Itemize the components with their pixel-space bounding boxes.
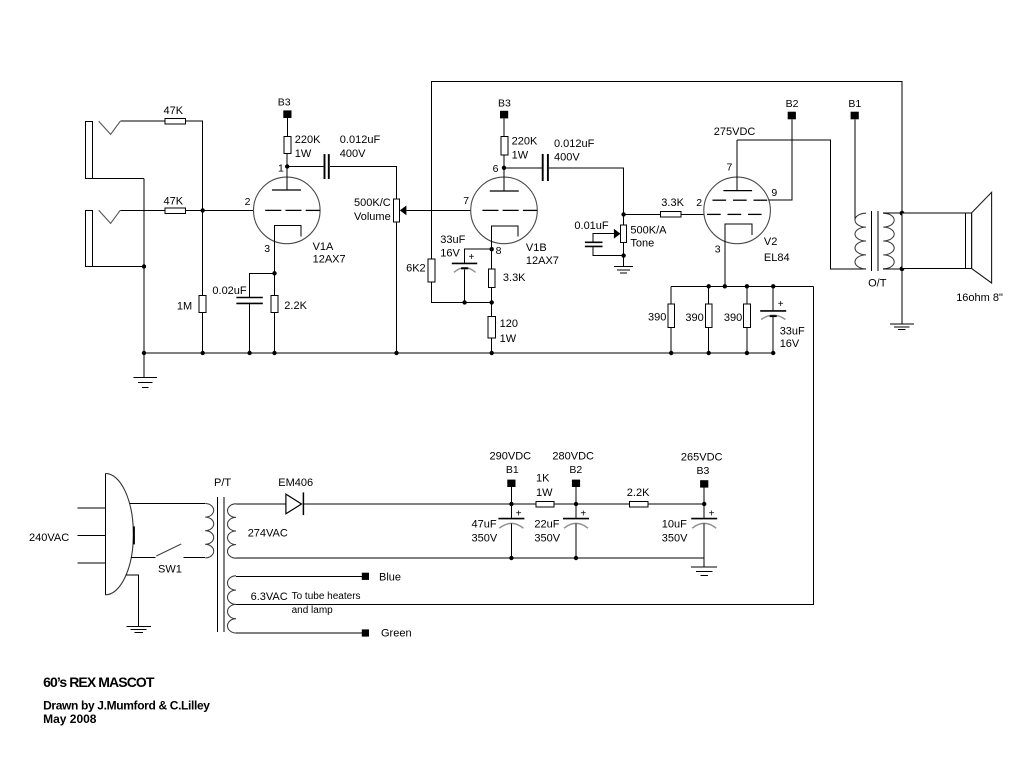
ground (PSU) xyxy=(691,567,717,575)
wire coupling cap to volume pot xyxy=(330,167,397,200)
V2 cathode xyxy=(725,224,752,235)
tube label V1B 12AX7 xyxy=(526,242,559,267)
junction 390-1 bus xyxy=(669,351,673,355)
svg-text:7: 7 xyxy=(727,162,733,174)
resistor 2.2K (dropper) xyxy=(627,487,650,507)
wire 0V return rail xyxy=(236,557,704,559)
junction volume-bus xyxy=(394,351,398,355)
V1A cathode xyxy=(275,226,302,237)
wire B3 to 220K xyxy=(503,118,505,136)
svg-text:Blue: Blue xyxy=(379,571,401,583)
mains plug body xyxy=(105,473,133,594)
wire B1 to OT primary top xyxy=(854,119,856,220)
node B3 (V1A supply) xyxy=(278,97,292,118)
svg-text:B3: B3 xyxy=(278,97,291,109)
svg-text:390: 390 xyxy=(648,311,666,323)
svg-text:240VAC: 240VAC xyxy=(29,532,69,544)
svg-text:3.3K: 3.3K xyxy=(503,272,526,284)
svg-text:EL84: EL84 xyxy=(764,252,790,264)
svg-text:2.2K: 2.2K xyxy=(284,300,307,312)
node B1 (290VDC) xyxy=(490,451,532,504)
resistor 1M xyxy=(177,296,206,313)
transformer O/T primary winding xyxy=(855,213,866,269)
node B3 (V1B supply) xyxy=(498,97,511,118)
capacitor 0.012uF 400V (V1A coupling) xyxy=(325,134,381,179)
wire B3 to 220K xyxy=(286,118,288,137)
svg-text:60’s REX MASCOT: 60’s REX MASCOT xyxy=(43,674,155,690)
junction 390-2 bus xyxy=(707,351,711,355)
junction B1 rail xyxy=(509,502,513,506)
svg-text:O/T: O/T xyxy=(868,278,887,290)
junction 22uF 0V rail xyxy=(574,556,578,560)
svg-text:1: 1 xyxy=(278,162,284,174)
wire bracket to 0.02uF xyxy=(250,273,275,297)
junction 3.3K row xyxy=(490,300,494,304)
svg-text:6: 6 xyxy=(493,163,499,175)
resistor 3.3K (V1B cathode) xyxy=(488,249,526,288)
capacitor 0.012uF 400V (V1B coupling) xyxy=(543,138,595,181)
resistor 390 (third) xyxy=(724,286,750,353)
wire B+ rail 2.2K to B3 xyxy=(648,503,704,505)
wire 0.02uF to bus xyxy=(249,303,251,353)
svg-text:16V: 16V xyxy=(780,338,800,350)
svg-text:1W: 1W xyxy=(512,149,529,161)
resistor 120 1W xyxy=(488,302,518,353)
transformer O/T core xyxy=(872,211,878,271)
svg-text:B2: B2 xyxy=(569,464,582,476)
wire NFB top run xyxy=(432,82,903,260)
V1A plate xyxy=(272,167,301,191)
svg-text:265VDC: 265VDC xyxy=(681,451,723,463)
resistor 390 (first) xyxy=(648,286,675,353)
resistor 3.3K (V2 grid) xyxy=(661,197,685,217)
wire plug to switch xyxy=(131,557,155,559)
svg-text:+: + xyxy=(709,508,715,519)
resistor 1K 1W xyxy=(536,472,554,506)
wire 3.3K to V2 grid pin 2 xyxy=(681,213,704,215)
svg-text:500K/A: 500K/A xyxy=(630,225,667,237)
switch SW1 xyxy=(156,544,182,575)
svg-text:120: 120 xyxy=(500,318,518,330)
wire heater bottom to Green lead xyxy=(236,632,362,634)
junction cathode node xyxy=(272,271,276,275)
V2 screen grid (dashed) xyxy=(713,199,768,201)
junction grid node xyxy=(201,208,205,212)
resistor 220K 1W (V1A plate load) xyxy=(284,134,321,160)
svg-text:275VDC: 275VDC xyxy=(714,126,756,138)
wire volume bottom to bus xyxy=(396,222,398,353)
capacitor 47uF 350V xyxy=(472,504,525,558)
potentiometer 500K/C Volume xyxy=(354,197,406,223)
svg-text:47K: 47K xyxy=(164,195,184,207)
capacitor 0.01uF (tone) xyxy=(574,220,623,256)
svg-text:2.2K: 2.2K xyxy=(627,487,650,499)
wire V1A cathode to junction xyxy=(274,236,276,273)
resistor 6K2 (NFB) xyxy=(406,259,435,282)
node Green lead xyxy=(362,627,412,639)
junction B3 rail xyxy=(702,502,706,506)
svg-text:22uF: 22uF xyxy=(534,518,559,530)
wire 47K to grid bus corner xyxy=(186,121,203,210)
svg-text:B3: B3 xyxy=(697,465,710,477)
svg-text:10uF: 10uF xyxy=(662,518,687,530)
wire ground riser from jacks xyxy=(143,178,145,353)
svg-text:47uF: 47uF xyxy=(472,518,497,530)
svg-text:+: + xyxy=(516,508,522,519)
junction B2 rail xyxy=(574,502,578,506)
svg-text:12AX7: 12AX7 xyxy=(526,255,559,267)
capacitor 33uF 16V (V2 cathode bypass) xyxy=(760,286,805,353)
svg-text:12AX7: 12AX7 xyxy=(313,254,346,266)
potentiometer 500K/A Tone xyxy=(614,214,667,249)
svg-text:Volume: Volume xyxy=(354,211,391,223)
svg-text:V1B: V1B xyxy=(526,242,547,254)
wire grid node to 1M to bus xyxy=(202,210,204,353)
node Blue lead xyxy=(362,571,401,583)
svg-text:Tone: Tone xyxy=(630,238,654,250)
wire 220K to node 6 xyxy=(503,155,505,168)
wire tone junction to 3.3K grid stopper xyxy=(624,213,661,215)
node B2 (280VDC) xyxy=(552,451,594,504)
wire J2 tip to 47K xyxy=(120,209,165,211)
svg-text:33uF: 33uF xyxy=(440,234,465,246)
svg-text:3: 3 xyxy=(264,243,270,255)
svg-text:220K: 220K xyxy=(295,134,321,146)
wire J1 tip to 47K xyxy=(120,120,165,122)
junction 47uF 0V rail xyxy=(509,556,513,560)
junction tone ground node xyxy=(621,253,625,257)
V2 plate xyxy=(723,140,752,191)
wire switch to P/T primary xyxy=(184,557,206,559)
wire J1 sleeve to ground riser xyxy=(92,177,144,179)
mains input lines 240VAC xyxy=(29,508,105,563)
V2 control grid (dashed) xyxy=(707,213,762,215)
svg-text:7: 7 xyxy=(463,195,469,207)
svg-text:+: + xyxy=(778,299,784,310)
V1B cathode xyxy=(492,226,519,237)
svg-text:0.012uF: 0.012uF xyxy=(340,134,381,146)
svg-text:33uF: 33uF xyxy=(780,325,805,337)
capacitor 0.02uF (cathode bypass) xyxy=(212,285,262,303)
wire V2 plate to OT primary bottom xyxy=(737,140,866,269)
input jack J1 body xyxy=(86,121,121,178)
wire pin8 to 33uF xyxy=(465,249,492,263)
speaker 16ohm 8" xyxy=(902,192,1003,304)
svg-text:9: 9 xyxy=(771,187,777,199)
resistor 47K (input 1) xyxy=(164,105,186,124)
junction 33uF row xyxy=(462,300,466,304)
V1B plate xyxy=(490,168,519,191)
transformer P/T core xyxy=(218,497,225,632)
wire main ground bus xyxy=(144,352,773,354)
svg-text:0.01uF: 0.01uF xyxy=(574,220,609,232)
svg-text:SW1: SW1 xyxy=(158,563,182,575)
svg-text:8: 8 xyxy=(496,245,502,257)
svg-text:Green: Green xyxy=(381,627,412,639)
title block xyxy=(43,674,210,726)
junction sleeve node xyxy=(142,264,146,268)
svg-text:280VDC: 280VDC xyxy=(552,451,594,463)
wire HT winding to diode xyxy=(236,503,286,505)
svg-text:P/T: P/T xyxy=(214,477,231,489)
svg-text:V1A: V1A xyxy=(313,241,334,253)
wire plug live to P/T primary xyxy=(130,503,206,505)
V1A grid (dashed) xyxy=(265,209,320,211)
wire 6K2 to junction row xyxy=(432,282,492,303)
wire heater top to Blue lead xyxy=(236,575,362,577)
ground (tone) xyxy=(614,267,633,274)
svg-text:To tube heaters: To tube heaters xyxy=(292,591,361,602)
triode V1B envelope xyxy=(471,177,538,244)
svg-text:1M: 1M xyxy=(177,301,192,313)
svg-text:EM406: EM406 xyxy=(278,477,313,489)
svg-text:350V: 350V xyxy=(534,533,560,545)
wire tone pot bottom to ground xyxy=(623,243,625,267)
svg-text:220K: 220K xyxy=(512,136,538,148)
svg-text:B1: B1 xyxy=(848,98,861,110)
node B3 (265VDC) xyxy=(681,451,723,504)
transformer P/T heater winding 6.3VAC xyxy=(227,576,236,633)
junction tone node xyxy=(621,212,625,216)
ground (mains earth) xyxy=(127,626,151,632)
svg-text:47K: 47K xyxy=(164,105,184,117)
triode V1A envelope xyxy=(253,177,320,244)
wire volume wiper to V1B grid pin 7 xyxy=(406,209,470,211)
label 6.3VAC heaters xyxy=(251,591,361,616)
svg-text:274VAC: 274VAC xyxy=(248,528,288,540)
svg-text:Drawn by J.Mumford & C.Lilley: Drawn by J.Mumford & C.Lilley xyxy=(43,698,210,712)
transformer O/T secondary winding xyxy=(883,213,894,269)
pentode V2 envelope xyxy=(704,177,771,244)
junction node 1 xyxy=(285,164,289,168)
svg-text:and lamp: and lamp xyxy=(292,605,334,616)
svg-text:350V: 350V xyxy=(472,533,498,545)
svg-text:V2: V2 xyxy=(764,236,777,248)
wire node1 to coupling cap xyxy=(287,166,323,168)
wire speaker to ground xyxy=(901,269,903,324)
svg-text:6K2: 6K2 xyxy=(406,263,426,275)
svg-text:B1: B1 xyxy=(506,464,519,476)
svg-text:1K: 1K xyxy=(536,472,550,484)
capacitor 22uF 350V xyxy=(534,504,589,558)
junction pin 8 xyxy=(490,247,494,251)
svg-text:3.3K: 3.3K xyxy=(661,197,684,209)
svg-text:0.012uF: 0.012uF xyxy=(554,138,595,150)
diode EM406 xyxy=(278,477,313,515)
svg-text:500K/C: 500K/C xyxy=(354,197,391,209)
svg-text:390: 390 xyxy=(685,312,703,324)
svg-text:+: + xyxy=(469,252,475,263)
wire secondary to speaker xyxy=(883,212,902,214)
transformer P/T primary winding xyxy=(205,503,214,557)
junction 390-3 bus xyxy=(745,351,749,355)
node B1 terminal xyxy=(848,98,861,119)
wire cathode network top rail xyxy=(671,285,813,287)
svg-text:B3: B3 xyxy=(498,97,511,109)
junction speaker terminals xyxy=(900,211,905,271)
svg-text:390: 390 xyxy=(724,312,742,324)
tube label V2 EL84 xyxy=(764,236,790,264)
junction node 6 xyxy=(502,166,506,170)
node B2 terminal xyxy=(786,98,799,119)
svg-text:6.3VAC: 6.3VAC xyxy=(251,591,288,603)
tube label V1A 12AX7 xyxy=(313,241,346,266)
plug neutral contact bar xyxy=(133,526,135,544)
capacitor 33uF 16V (V1B cathode bypass) xyxy=(440,234,477,272)
wire plug earth to ground xyxy=(126,575,139,626)
transformer P/T HT secondary winding xyxy=(227,504,236,558)
wire J2 sleeve xyxy=(92,266,144,268)
svg-text:16ohm 8": 16ohm 8" xyxy=(956,292,1003,304)
svg-text:B2: B2 xyxy=(786,98,799,110)
input jack J2 body xyxy=(86,210,121,266)
resistor 47K (input 2) xyxy=(164,195,186,213)
wire heater CT riser xyxy=(236,286,814,604)
ground (speaker) xyxy=(890,324,914,330)
wire coupling cap to tone junction xyxy=(549,168,624,215)
junction 33uF bus xyxy=(771,351,775,355)
ground (main bus) xyxy=(134,353,158,387)
svg-text:1W: 1W xyxy=(295,148,312,160)
wire V2 cathode to top rail xyxy=(724,235,726,287)
junction 120-bus xyxy=(490,351,494,355)
wire V1B cathode to pin 8 node xyxy=(491,236,493,249)
V1B grid (dashed) xyxy=(482,209,537,211)
svg-text:16V: 16V xyxy=(440,248,460,260)
svg-text:2: 2 xyxy=(245,196,251,208)
resistor 220K 1W (V1B plate load) xyxy=(501,136,538,162)
svg-text:May 2008: May 2008 xyxy=(43,712,97,726)
svg-text:400V: 400V xyxy=(554,151,580,163)
wire B+ rail diode to 1K xyxy=(303,503,536,505)
svg-text:290VDC: 290VDC xyxy=(490,451,532,463)
wire B+ rail 1K to 2.2K xyxy=(554,503,629,505)
resistor 390 (second) xyxy=(685,286,712,353)
svg-text:1W: 1W xyxy=(536,487,553,499)
resistor 2.2K (V1A cathode) xyxy=(271,273,308,353)
wire 220K to node 1 xyxy=(286,154,288,167)
svg-text:1W: 1W xyxy=(500,333,517,345)
wire node6 to coupling cap xyxy=(504,167,542,169)
svg-text:3: 3 xyxy=(715,244,721,256)
svg-text:400V: 400V xyxy=(340,148,366,160)
wire 47K to V1A grid pin 2 xyxy=(186,209,254,211)
wire B2 to screen pin 9 xyxy=(768,119,791,200)
svg-text:+: + xyxy=(580,508,586,519)
svg-text:350V: 350V xyxy=(662,533,688,545)
svg-text:2: 2 xyxy=(696,197,702,209)
junction top rail nodes xyxy=(707,284,776,288)
svg-text:0.02uF: 0.02uF xyxy=(212,285,247,297)
capacitor 10uF 350V xyxy=(662,504,717,567)
junction bus left nodes xyxy=(142,351,277,355)
wire 33uF to junction row xyxy=(464,269,466,302)
wire 3.3K to junction row xyxy=(491,288,493,303)
